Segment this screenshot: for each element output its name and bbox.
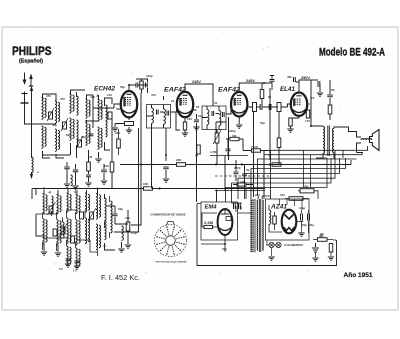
svg-text:270K: 270K: [251, 145, 259, 149]
EM4 top caps: [234, 203, 236, 209]
wire grid to ECH42: [93, 104, 121, 108]
wire stair v8: [226, 158, 328, 202]
wire ECH42 anode top: [129, 85, 136, 91]
svg-text:01: 01: [214, 101, 218, 105]
wires above power box: [280, 199, 303, 210]
EM4 bottom wire: [201, 235, 225, 252]
res on bus: [177, 163, 186, 167]
svg-text:10K: 10K: [303, 185, 309, 189]
IFT1 can outline: [147, 105, 171, 129]
screen cap EAF42-1: [194, 120, 199, 122]
wire RF mid bus: [43, 143, 77, 158]
screen resistor R4: [117, 139, 121, 148]
junction dot 1: [151, 164, 153, 166]
svg-text:30p: 30p: [52, 123, 57, 127]
junction dot 8: [128, 84, 130, 86]
band trimmer arrow 2: [60, 223, 68, 236]
svg-text:100p: 100p: [229, 129, 236, 133]
ground RF 3: [85, 183, 91, 186]
svg-text:01: 01: [268, 95, 272, 99]
filter cap 1: [301, 214, 303, 221]
svg-text:100: 100: [104, 164, 109, 168]
osc coil L7: [106, 105, 108, 137]
IFT1 primary coil: [152, 108, 154, 123]
RF coil L5b: [86, 123, 88, 145]
svg-text:50p: 50p: [66, 133, 71, 137]
detector chain wire: [248, 106, 288, 108]
tone cap EL41: [327, 95, 333, 97]
svg-text:1M: 1M: [240, 180, 245, 184]
wire osc mid: [99, 142, 111, 158]
bandswitch coil H: [67, 246, 69, 265]
det chain cap B: [269, 104, 271, 110]
junction dot 6: [269, 155, 271, 157]
wire OT sec top: [334, 127, 361, 137]
wire OT sec bottom: [334, 143, 363, 159]
bandswitch coil F1: [96, 194, 98, 220]
electrolytic cap ext: [312, 243, 319, 252]
junction dot 3: [216, 190, 218, 192]
det resistor R8: [252, 149, 261, 152]
det chain res B: [277, 103, 281, 112]
bandswitch coil E2: [85, 218, 87, 244]
cap above EAF42-2: [270, 80, 275, 82]
wire det 1: [216, 130, 218, 165]
RF bottom coil: [71, 175, 73, 186]
wire stair v3: [258, 159, 357, 196]
ground RF 1: [64, 184, 70, 187]
wire drop x196: [196, 126, 198, 202]
svg-text:63p: 63p: [118, 207, 123, 211]
output transformer secondary: [333, 129, 335, 153]
wire IFT1 to EAF42 grid: [164, 96, 178, 112]
svg-text:25µ: 25µ: [222, 247, 227, 251]
wire det verticals: [216, 122, 264, 197]
bandswitch coil B2: [57, 220, 59, 246]
svg-text:01µ: 01µ: [198, 114, 203, 118]
wire stair v4: [251, 158, 346, 199]
RF coil L2a: [55, 101, 57, 123]
wire det bus y190: [215, 190, 265, 192]
bandswitch coil B1: [57, 195, 59, 214]
svg-text:125: 125: [280, 193, 285, 197]
junction dot 7: [310, 125, 312, 127]
speaker voice coil: [361, 139, 372, 140]
svg-text:A FILAMENTOS: A FILAMENTOS: [284, 243, 303, 247]
ext res vert: [329, 244, 333, 253]
bandswitch coil I2: [63, 222, 65, 238]
wire det drop x279: [278, 112, 280, 139]
RF coil L3b: [70, 118, 72, 140]
det resistor R9: [237, 183, 246, 186]
antenna down-lead wire: [31, 95, 33, 158]
wire EL41 anode: [299, 80, 311, 126]
filter cap 2: [308, 214, 310, 221]
wire det 3: [243, 151, 270, 161]
bandswitch coil H2: [76, 248, 78, 267]
bandswitch link wires: [36, 204, 105, 244]
junction dot 2: [165, 154, 167, 156]
tube EM4 envelope: [218, 209, 233, 235]
pilot lamp 1: [269, 242, 274, 247]
tube EL41 cathode arc: [293, 110, 306, 113]
wire osc top: [99, 95, 113, 106]
ground EL41: [287, 129, 293, 132]
tube EM4 grid res: [204, 225, 213, 228]
bandswitch coil E1: [85, 193, 87, 212]
wire into power box: [197, 204, 252, 214]
svg-text:470: 470: [90, 95, 95, 99]
wire R1: [88, 150, 90, 182]
antenna coil tail wire: [31, 172, 33, 178]
osc coil L6a: [98, 99, 100, 121]
wire L1-L2 link: [32, 94, 56, 124]
band box top border: [31, 189, 33, 200]
svg-text:10: 10: [333, 238, 337, 242]
bandswitch coil F2: [96, 224, 98, 250]
svg-text:25p: 25p: [81, 135, 86, 139]
svg-text:01: 01: [171, 99, 175, 103]
osc padder cap C5: [101, 170, 107, 172]
wire OT primary top: [311, 125, 323, 128]
wire res 10K leads: [298, 191, 318, 199]
wire stair v6: [238, 158, 335, 199]
bandswitch left wire: [36, 189, 105, 237]
tube ECH42 grid structure: [125, 98, 132, 106]
wire drop x151.5: [151, 128, 153, 189]
bandswitch trimmer 2: [61, 227, 65, 234]
power outer box: [197, 204, 337, 266]
ground RF 2: [72, 186, 78, 189]
ground filter: [298, 233, 304, 236]
junction dot bus: [241, 163, 243, 165]
det drop res: [277, 138, 281, 148]
svg-text:EAF42: EAF42: [218, 87, 241, 94]
svg-text:CONMUTADOR DE ONDAS: CONMUTADOR DE ONDAS: [151, 213, 186, 217]
cap drop x166: [163, 167, 169, 169]
junction dot 11: [104, 245, 106, 247]
bandswitch coil G: [105, 198, 107, 240]
IFT2 secondary cap: [223, 112, 225, 117]
wire L5 link: [87, 95, 94, 124]
osc grid wire: [85, 95, 99, 128]
cathode res EL41: [289, 118, 292, 126]
svg-text:22K: 22K: [176, 158, 182, 162]
wire ECH42 cathode: [128, 118, 130, 121]
AZ41 box outline: [266, 199, 310, 240]
RF coil L1b: [42, 126, 44, 148]
dashed AVC line: [215, 175, 270, 177]
wire psu drop a: [303, 150, 305, 187]
screen res EAF42-2: [260, 90, 264, 99]
svg-text:1-2: 1-2: [73, 269, 77, 273]
trimmer arrow T1: [47, 108, 54, 121]
feedback res: [306, 110, 309, 118]
cathode res EAF42-1: [183, 122, 186, 130]
svg-text:140: 140: [107, 93, 112, 97]
det cap C10: [242, 174, 247, 176]
cap C7 above ECH42: [146, 83, 148, 88]
power transformer winding left: [257, 200, 258, 250]
IFT2 can outline: [202, 106, 226, 130]
wire det drop x253: [253, 112, 255, 156]
tube ECH42 cathode arc: [123, 110, 136, 113]
padder cap C2: [73, 170, 79, 172]
tube ECH42 envelope: [121, 91, 137, 117]
junction dot 4: [228, 155, 230, 157]
AVC res R10: [272, 163, 281, 166]
cap above EL41: [294, 77, 296, 82]
lamp wires: [266, 240, 276, 256]
wire ECH42 top rail: [129, 79, 148, 85]
ground EAF42-1: [182, 133, 188, 136]
svg-text:56K: 56K: [116, 107, 122, 111]
IFT2 primary coil: [207, 110, 209, 125]
RF coil L2b: [55, 129, 57, 151]
bandswitch coil D1: [76, 195, 78, 214]
tube EAF42-1 grid structure: [181, 99, 188, 105]
wire mid column: [245, 189, 247, 200]
tube AZ41 filament W: [284, 227, 295, 231]
svg-text:50: 50: [196, 105, 200, 109]
res R3 above ECH42: [140, 81, 143, 89]
wire stair v5: [245, 158, 340, 199]
junction dot 13: [97, 188, 99, 190]
wire det 2: [226, 139, 243, 150]
earth terminal symbol: [24, 92, 26, 104]
scan speckle noise: [131, 72, 132, 73]
trimmer box T4: [108, 112, 112, 119]
wire stair v2: [264, 153, 362, 200]
RF coil L3a: [70, 94, 72, 113]
tube EL41 envelope: [291, 93, 307, 116]
tube EAF42-2 grid structure: [235, 99, 242, 105]
junction dot 0: [140, 164, 142, 166]
earth lead wire: [25, 103, 33, 124]
svg-text:Año 1951: Año 1951: [344, 272, 373, 279]
svg-text:EL41: EL41: [280, 86, 296, 93]
svg-text:5-6: 5-6: [59, 267, 63, 271]
bandswitch bottom caps: [66, 259, 71, 261]
svg-text:0,1µ: 0,1µ: [131, 231, 137, 235]
wire L1 bottom: [43, 151, 51, 158]
bandswitch coil A2: [43, 219, 45, 245]
osc resistor R2: [110, 162, 114, 172]
screen bypass cap: [318, 81, 320, 87]
antenna lead-in arrow: [31, 88, 33, 95]
wire stair v1: [271, 146, 368, 199]
wire EAF42-1 aux: [176, 112, 180, 130]
bandswitch box small 1: [71, 236, 75, 243]
IFT1 primary cap: [157, 110, 159, 115]
bandswitch coil I1: [52, 196, 54, 212]
svg-text:22K: 22K: [115, 131, 121, 135]
det chain res A: [253, 103, 257, 112]
RF coil L5a: [86, 99, 88, 118]
power transformer top leads: [258, 196, 270, 199]
wire bottom bus y188: [32, 188, 265, 190]
band wires right: [105, 206, 129, 250]
svg-text:2,2M: 2,2M: [204, 221, 213, 225]
junction dot 10: [215, 164, 217, 166]
ground ECH42: [126, 130, 132, 133]
svg-text:100p: 100p: [146, 74, 153, 78]
svg-text:220: 220: [255, 193, 260, 197]
svg-text:EM4: EM4: [205, 205, 218, 211]
svg-text:470: 470: [151, 93, 156, 97]
tube AZ41 envelope: [282, 210, 297, 234]
svg-text:1M: 1M: [232, 134, 237, 138]
output transformer core: [328, 126, 330, 157]
junction dot x158: [158, 187, 160, 189]
antenna series coil: [32, 157, 34, 173]
band output cap: [113, 214, 118, 216]
svg-text:170: 170: [305, 119, 310, 123]
wire drop x141: [131, 93, 141, 225]
wire osc R2: [111, 119, 113, 188]
res 10K psu: [300, 189, 314, 193]
svg-text:AZ41: AZ41: [270, 205, 288, 211]
IFT2 primary cap: [212, 111, 214, 116]
bandswitch coil C1: [67, 193, 69, 212]
ground electrolytic: [312, 258, 318, 261]
det resistor R7: [230, 137, 239, 140]
wire drop x228: [228, 117, 230, 160]
det cap C9: [234, 172, 239, 174]
svg-text:245V: 245V: [246, 79, 256, 83]
wire L3 top: [71, 90, 86, 97]
tube AZ41 plate V: [285, 215, 294, 220]
tube EM4 target screen: [221, 209, 229, 214]
wire drop x166: [165, 128, 167, 161]
svg-text:2200: 2200: [234, 166, 241, 170]
junction dot 5: [253, 190, 255, 192]
output transformer primary: [323, 127, 325, 154]
bandswitch grounds: [65, 264, 71, 267]
band box small 2: [80, 212, 84, 219]
svg-text:VISTO POR EL LADO DE LAS CONEX: VISTO POR EL LADO DE LAS CONEXIONES: [156, 261, 188, 264]
volume pot R6: [215, 133, 219, 143]
svg-text:250V: 250V: [301, 76, 311, 80]
RF coil L1a: [42, 97, 44, 119]
svg-text:50p: 50p: [260, 121, 265, 125]
bandswitch wire J: [109, 196, 111, 238]
tube EAF42-2 envelope: [231, 92, 247, 117]
AZ41 heater coil: [269, 210, 271, 224]
wire OT primary bottom: [316, 154, 323, 159]
band trimmer arrow 1: [48, 202, 56, 215]
antenna down-arrow: [24, 73, 26, 84]
svg-text:(Español): (Español): [19, 59, 43, 65]
band trimmer arrow 3: [88, 208, 96, 221]
band box small 3: [53, 229, 57, 236]
speaker cone: [370, 130, 380, 151]
svg-text:47n: 47n: [125, 216, 130, 220]
trimmer box T2: [63, 122, 67, 129]
wire drop x138: [114, 128, 139, 232]
speaker gap lines: [369, 137, 371, 143]
wire det chain into EL41: [288, 104, 292, 107]
wave switch tab: [167, 222, 175, 226]
osc coil L6b: [98, 127, 100, 149]
AZ41 wires: [269, 205, 303, 232]
IFT1 wires: [147, 105, 164, 129]
svg-text:245V: 245V: [192, 80, 202, 84]
svg-text:50µ: 50µ: [309, 223, 314, 227]
svg-text:1M: 1M: [88, 155, 93, 159]
trimmer box T1: [49, 112, 53, 119]
IFT1 secondary coil: [164, 109, 166, 124]
tube EL41 grid structure: [294, 99, 301, 105]
wire EAF42-2 cathode: [238, 117, 240, 125]
tube EM4 cathode arc: [220, 228, 231, 231]
trimmer box T3: [78, 140, 82, 147]
EM4 box outline: [201, 202, 238, 240]
tube EAF42-1 cathode arc: [179, 111, 192, 114]
bandswitch coil D2: [76, 220, 78, 246]
IFT1 secondary cap: [167, 111, 169, 116]
svg-text:4,7M: 4,7M: [210, 150, 217, 154]
junction dot x270: [269, 163, 271, 165]
power transformer core: [260, 199, 261, 252]
ground ext res: [328, 257, 334, 260]
padder cap C1: [64, 167, 70, 169]
wire det drop x279b: [278, 148, 280, 165]
RF coil L4a: [77, 96, 79, 115]
svg-text:50µ: 50µ: [302, 223, 307, 227]
band res: [126, 222, 130, 231]
RF coil L4b: [77, 120, 79, 142]
bandswitch trimmer 1: [49, 206, 53, 213]
wire long bus y164: [120, 160, 351, 165]
mains fuse resistor: [289, 197, 303, 201]
svg-text:470: 470: [46, 94, 51, 98]
cap C6 above ECH42: [136, 83, 138, 88]
det chain cap A: [260, 104, 262, 110]
trimmer arrow T2: [61, 118, 68, 131]
power transformer note text: [251, 199, 256, 252]
svg-text:100: 100: [187, 117, 192, 121]
band output coil: [122, 226, 124, 240]
wire psu drop b: [310, 155, 312, 187]
bandswitch coil J: [111, 201, 113, 233]
wire EAF42-1 anode: [185, 84, 213, 106]
svg-text:Modelo BE 492-A: Modelo BE 492-A: [319, 47, 385, 59]
AZ41 res: [273, 216, 277, 224]
det cap C8: [226, 149, 231, 151]
bandswitch inner wires 2: [52, 211, 98, 256]
svg-text:EAF42: EAF42: [164, 87, 187, 94]
wave switch inner circle: [166, 236, 176, 246]
band link wires 3: [43, 210, 86, 251]
svg-text:70: 70: [311, 96, 315, 100]
antenna up-arrow: [30, 76, 32, 86]
ground osc: [95, 159, 101, 162]
ground lamps: [268, 257, 274, 260]
wire stair v7: [232, 158, 332, 202]
power transformer winding right: [262, 200, 263, 250]
mains resistor ext: [318, 238, 328, 242]
svg-text:15K: 15K: [143, 182, 149, 186]
osc cap C4: [89, 134, 94, 136]
pilot lamp 2: [276, 242, 281, 247]
trimmer arrow T3: [76, 136, 83, 149]
svg-text:470: 470: [60, 97, 65, 101]
junction dot bus2: [195, 154, 197, 156]
IFT2 secondary coil: [219, 111, 221, 126]
tube EAF42-1 envelope: [177, 92, 193, 117]
cathode resistor R5: [125, 122, 134, 126]
